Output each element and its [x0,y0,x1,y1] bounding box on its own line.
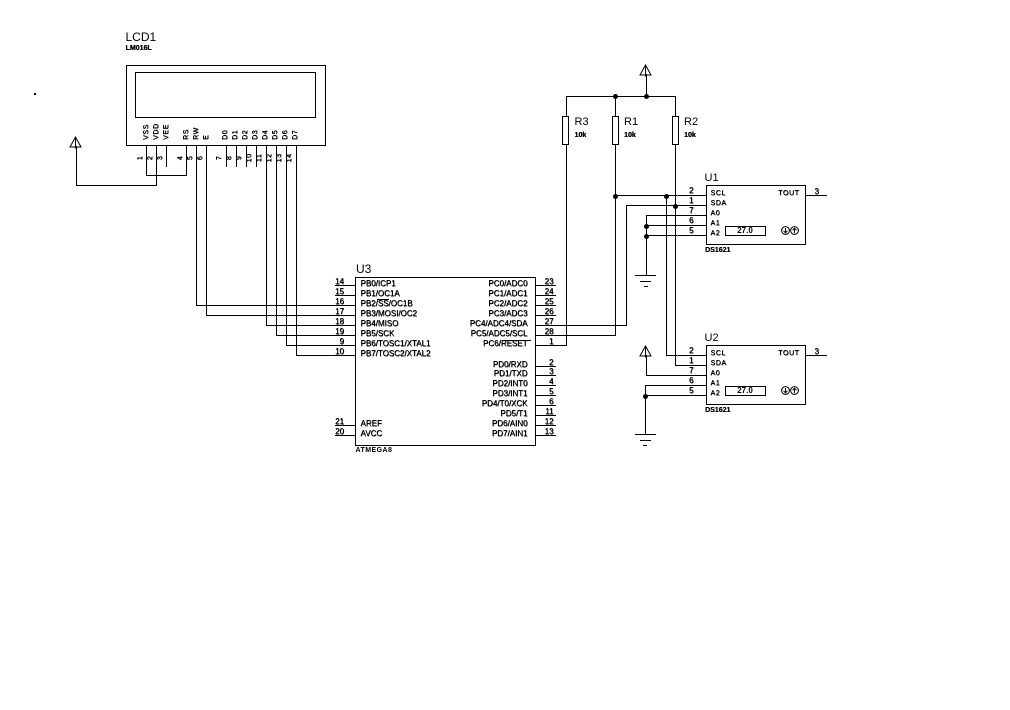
U3 pin label PD2/INT0 [492,380,527,388]
LCD1 pin name D0 [222,130,229,140]
LCD1 pin number 11 [256,148,263,168]
U2 pin number 7 [689,367,693,375]
U2 pin label A2 [711,390,721,397]
wire power to U2 A0 [646,355,647,376]
wire into U2 SCL [666,355,707,356]
U3 pin number 1 [549,338,553,346]
wire U1 pin 1 (SDA) [626,205,707,206]
wire U3 right pin 26 [535,315,556,316]
wire LCD1 pin 13 (D6) [286,145,287,347]
LCD1 pin name D2 [242,130,249,140]
overline RESET on PC6 [503,340,531,341]
U2 down-arrow button [781,386,790,395]
U2 pin label SCL [711,350,726,357]
junction SCL/R1 [613,194,618,199]
wire U3 left pin 10 [296,355,357,356]
wire U3 left pin 9 [286,345,357,346]
LCD1 pin name VSS [143,124,150,140]
power symbol +5V (LCD) [69,136,82,149]
wire U3 right pin 6 [535,405,556,406]
U1 display 27.0 [725,226,766,237]
wire U3 right pin 25 [535,305,556,306]
U2 value label DS1621 [705,407,730,414]
wire U3 right pin 13 [535,435,556,436]
LCD1 pin name RS [183,129,190,140]
wire LCD1 pin 7 (D0) [226,145,227,167]
U3 pin number 18 [335,318,344,326]
U3 pin label PC5/ADC5/SCL [471,330,528,338]
U3 pin label PD7/AIN1 [492,430,528,438]
LCD1 pin number 9 [236,148,243,168]
U3 pin label PC3/ADC3 [488,310,527,318]
ground symbol (U1) [635,275,656,276]
U3 pin label PC2/ADC2 [488,300,527,308]
wire U3 right pin 23 [535,285,556,286]
U3 pin number 3 [549,368,553,376]
U3 pin label PD6/AIN0 [492,420,528,428]
R3 value label 10k [575,132,587,139]
U1 value label DS1621 [705,247,730,254]
U1 pin number 7 [689,207,693,215]
wire power to resistor bus [646,74,647,96]
wire power to LCD VDD [76,146,77,186]
wire U1 SDA to U3 PC4/SDA [626,205,627,326]
R1 value label 10k [624,132,636,139]
LCD1 pin name VDD [153,123,160,140]
U3 pin label PC6/RESET [483,340,527,348]
U3 pin number 25 [545,298,554,306]
U3 pin label AVCC [361,430,383,438]
wire U3 left pin 18 [266,325,357,326]
U2 pin label A1 [711,380,721,387]
wire LCD1 pin 4 (RS) [186,145,187,177]
U3 pin label PD4/T0/XCK [482,400,528,408]
power symbol +5V (U2 A0) [639,345,652,358]
wire U3 left pin 21 [335,425,356,426]
U2 pin number 3 [815,348,819,356]
U3 pin number 26 [545,308,554,316]
LCD1 pin number 4 [177,148,184,168]
LCD1 pin name D6 [282,130,289,140]
wire LCD1 pin 14 (D7) [296,145,297,357]
U2 pin number 6 [689,377,693,385]
U2 up-arrow button [790,386,799,395]
stray dot mark [34,93,37,96]
U3 pin label PB7/TOSC2/XTAL2 [361,350,431,358]
U3 pin label PB2/SS/OC1B [361,300,413,308]
wire U2 A1 to ground [645,385,707,386]
U3 pin label PC1/ADC1 [488,290,527,298]
U3 reference label [356,263,371,275]
wire U1 pin 5 (A2) [646,235,707,236]
U3 pin label PD1/TXD [494,370,528,378]
LCD1 pin number 13 [276,148,283,168]
U3 pin number 24 [545,288,554,296]
wire U3 right pin 2 [535,366,556,367]
U3 pin label PD0/RXD [493,361,528,369]
U2 reference label [705,333,719,344]
LCD1 pin number 12 [266,148,273,168]
wire U3 right pin 12 [535,425,556,426]
U3 pin number 10 [335,348,344,356]
U1 pin label A2 [711,230,721,237]
U2 display 27.0 [725,386,766,397]
resistor R3 body [562,116,569,145]
resistor R2 body [672,116,679,145]
U1 pin number 5 [689,227,693,235]
LCD1 pin number 8 [226,148,233,168]
junction U2 A2/ground net [643,394,648,399]
wire LCD1 pin 1 (VSS) [146,145,147,177]
wire LCD1 pin 3 (VEE) [166,145,167,167]
U3 pin label PB0/ICP1 [361,280,396,288]
U1 up-arrow button [790,226,799,235]
U3 pin number 5 [549,388,553,396]
U3 pin label PC0/ADC0 [488,280,527,288]
wire U3 left pin 15 [335,295,356,296]
LCD1 pin name RW [193,127,200,140]
LCD1 pin number 1 [137,148,144,168]
U3 pin number 27 [545,318,554,326]
power symbol +5V (resistors) [639,64,652,77]
wire LCD VSS to RS [146,175,187,176]
junction SDA/R2 [673,204,678,209]
U2 pin label A0 [711,370,721,377]
wire LCD1 pin 6 (E) [206,145,207,317]
U3 pin number 2 [549,359,553,367]
U3 pin label PB6/TOSC1/XTAL1 [361,340,431,348]
wire R1 down through SCL to U3 PC5/SCL [615,144,616,337]
U3 pin label PD3/INT1 [492,390,527,398]
U3 pin number 11 [545,408,553,416]
U3 pin number 15 [335,288,344,296]
wire U3 left pin 20 [335,435,356,436]
U2 body (DS1621) [706,345,807,406]
LCD1 screen area [135,72,316,118]
U3 pin label AREF [361,420,382,428]
wire into U2 SDA [675,365,707,366]
U3 pin number 16 [335,298,344,306]
wire R2 top lead [675,96,676,117]
U3 value label ATMEGA8 [356,447,393,454]
junction SCL to U2 [664,194,669,199]
U3 body (ATMEGA8) [355,277,536,447]
LCD1 pin name D4 [262,130,269,140]
wire LCD1 pin 2 (VDD) [156,145,157,187]
LCD1 pin number 10 [246,148,253,168]
overline SS on PB2 [377,299,389,300]
U1 pin label SCL [711,190,726,197]
wire U3 right pin 11 [535,415,556,416]
wire U2 A2 [645,395,707,396]
U3 pin number 28 [545,328,554,336]
wire U3 right pin 27 [535,325,627,326]
U1 pin label A0 [711,210,721,217]
U3 pin number 19 [335,328,344,336]
LCD1 pin name D3 [252,130,259,140]
wire R1 top lead [615,96,616,117]
resistor R1 body [612,116,619,145]
wire R3 to U3 RESET [566,144,567,347]
wire U3 right pin 4 [535,385,556,386]
U3 pin number 6 [549,398,553,406]
wire LCD1 pin 12 (D5) [276,145,277,337]
ground symbol (U2) [635,434,656,435]
R2 reference label [684,117,698,128]
junction bus/power [644,94,649,99]
wire U3 right pin 24 [535,295,556,296]
U3 pin number 12 [545,418,554,426]
wire LCD1 pin 8 (D1) [236,145,237,167]
wire LCD1 pin 10 (D3) [256,145,257,167]
U2 pin label TOUT [778,350,799,357]
wire U1 TOUT pin 3 [806,195,827,196]
U1 pin label TOUT [778,190,799,197]
wire R2 down through SDA to U2 SDA [675,144,676,367]
wire resistor top bus [566,96,677,97]
U1 pin number 3 [815,188,819,196]
wire U1 pin 7 (A0) [646,215,707,216]
wire U1 A0/A1/A2 to ground [646,215,647,276]
U3 pin label PB4/MISO [361,320,399,328]
LCD1 pin number 6 [197,148,204,168]
U3 pin number 4 [549,378,553,386]
U2 pin number 2 [689,347,693,355]
wire U1 SCL down to U2 SCL [666,195,667,356]
LCD1 pin number 7 [216,148,223,168]
U3 pin label PB1/OC1A [361,290,400,298]
LCD1 pin number 5 [187,148,194,168]
U3 pin number 21 [335,418,344,426]
U1 pin number 6 [689,217,693,225]
wire U3 right pin 28 [535,335,616,336]
wire R3 top lead [566,96,567,117]
LCD1 pin number 2 [147,148,154,168]
LCD1 body [126,65,326,146]
R3 reference label [575,117,589,128]
LCD1 pin name VEE [163,124,170,140]
U3 pin label PB3/MOSI/OC2 [361,310,417,318]
U1 reference label [705,173,719,184]
U3 pin label PB5/SCK [361,330,395,338]
wire U3 left pin 16 [196,305,356,306]
wire U3 left pin 17 [206,315,356,316]
U3 pin number 23 [545,278,554,286]
LCD1 pin number 14 [286,148,293,168]
wire U3 left pin 14 [335,285,356,286]
junction bus/R1 [613,94,618,99]
wire LCD1 pin 5 (RW) [196,145,197,307]
wire LCD1 pin 11 (D4) [266,145,267,327]
U1 body (DS1621) [706,185,807,246]
U3 pin label PC4/ADC4/SDA [470,320,528,328]
U3 pin label PD5/T1 [500,410,527,418]
LCD1 pin name D1 [232,130,239,140]
wire U3 left pin 19 [276,335,357,336]
U1 pin label SDA [711,200,727,207]
LCD1 value label LM016L [126,45,152,52]
U3 pin number 14 [335,278,344,286]
U3 pin number 20 [335,428,344,436]
LCD1 pin name D7 [292,130,299,140]
wire LCD1 pin 9 (D2) [246,145,247,167]
R1 reference label [624,117,638,128]
R2 value label 10k [684,132,696,139]
wire U1 pin 6 (A1) [646,225,707,226]
LCD1 pin number 3 [157,148,164,168]
U1 pin number 1 [689,197,693,205]
wire U3 right pin 1 [535,345,567,346]
U3 pin number 17 [335,308,344,316]
U3 pin number 13 [545,428,554,436]
U2 pin number 5 [689,387,693,395]
junction A1/ground net [644,224,649,229]
U3 pin number 9 [340,338,344,346]
LCD1 pin name D5 [272,130,279,140]
junction A2/ground net [644,234,649,239]
wire U2 TOUT pin 3 [806,355,827,356]
LCD1 pin name E [203,135,210,140]
U1 pin label A1 [711,220,721,227]
LCD1 reference label [126,31,157,43]
U1 down-arrow button [781,226,790,235]
U2 pin number 1 [689,357,693,365]
wire U3 right pin 5 [535,395,556,396]
U2 pin label SDA [711,360,727,367]
wire U3 right pin 3 [535,375,556,376]
U1 pin number 2 [689,187,693,195]
wire U1 pin 2 (SCL) [615,195,707,196]
